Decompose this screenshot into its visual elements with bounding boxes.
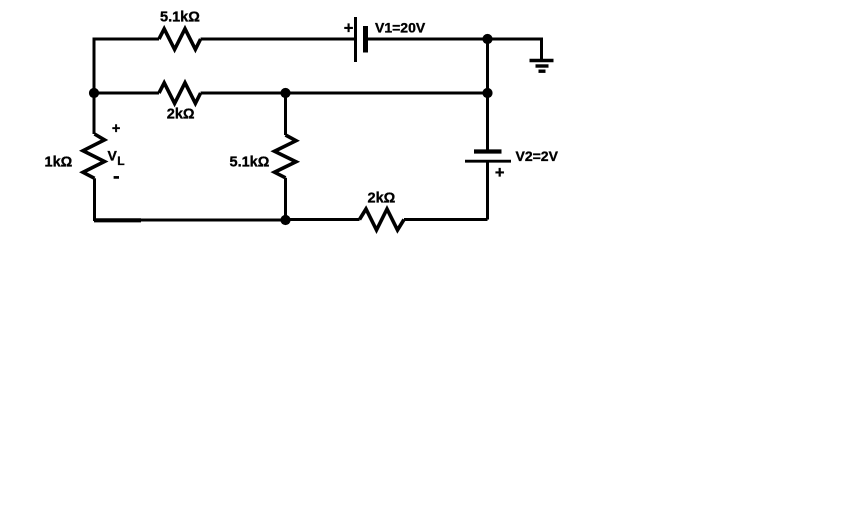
wire node C down to battery V2 [486, 93, 489, 150]
svg-text:V1=20V: V1=20V [375, 20, 426, 36]
battery V2 negative plate (short thick) [474, 149, 502, 153]
svg-text:+: + [344, 19, 354, 37]
battery V2 positive plate (long thin) [465, 160, 511, 163]
wire top-left horizontal (node A to R1) [93, 38, 160, 41]
wire node D down to node C [486, 39, 489, 93]
svg-text:+: + [112, 121, 120, 137]
ground symbol [530, 61, 554, 72]
svg-text:L: L [117, 154, 124, 168]
node A (left, row 2) [89, 88, 99, 98]
label - of VL [114, 176, 119, 179]
wire node A down to RL [93, 93, 96, 134]
svg-text:+: + [495, 164, 505, 182]
resistor RL 1k ohm (left vertical) [83, 134, 105, 178]
wire (overlapping thicker left segment) [94, 218, 141, 222]
wire node E to R4 [286, 218, 360, 221]
resistor R4 2k ohm (bottom) [360, 209, 405, 230]
wire row2 node A to R2 [94, 92, 159, 95]
resistor R3 5.1k ohm (middle vertical) [275, 135, 297, 178]
wire left vertical (top corner down to node A) [93, 39, 96, 93]
wire R2 to node B [201, 92, 286, 95]
wire R1 to battery V1 [201, 38, 355, 41]
svg-text:5.1kΩ: 5.1kΩ [230, 154, 270, 170]
battery V1 positive plate (long) [354, 17, 357, 62]
wire R4 to bottom-right corner [404, 218, 488, 221]
svg-text:5.1kΩ: 5.1kΩ [160, 10, 200, 26]
node B (middle, row 2) [280, 88, 290, 98]
node D (top right) [482, 34, 492, 44]
node C (right, row 2) [482, 88, 492, 98]
resistor R1 5.1k ohm (top) [159, 29, 201, 50]
svg-text:V: V [108, 148, 118, 164]
node E (middle bottom) [280, 215, 290, 225]
wire node B to node C [286, 92, 488, 95]
svg-text:2kΩ: 2kΩ [368, 190, 396, 206]
svg-text:1kΩ: 1kΩ [45, 155, 73, 171]
wire node B down to R3 [284, 93, 287, 135]
wire RL to bottom-left corner [93, 178, 96, 221]
svg-text:V2=2V: V2=2V [516, 148, 559, 164]
battery V1 negative plate (short thick) [363, 26, 368, 53]
svg-text:2kΩ: 2kΩ [167, 106, 195, 122]
wire battery V1 to top-right corner [368, 38, 543, 41]
wire R3 to bottom node E [284, 178, 287, 220]
wire down to ground [540, 39, 543, 61]
wire battery V2 down to bottom-right corner [486, 161, 489, 219]
resistor R2 2k ohm (row 2) [159, 83, 201, 104]
wire bottom-left corner to node E [94, 219, 286, 222]
